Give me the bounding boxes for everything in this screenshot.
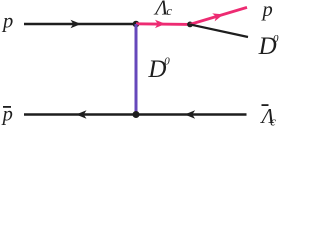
svg-text:c: c: [270, 113, 276, 128]
arrow 1 on antiproton line (left): [76, 110, 87, 118]
wire: D0 exchange propagator (purple vertical): [135, 24, 138, 115]
svg-text:c: c: [166, 3, 172, 18]
arrow on outgoing proton line: [212, 10, 224, 21]
svg-text:0: 0: [164, 56, 170, 68]
wire: Λc propagator (magenta horizontal): [136, 22, 190, 26]
arrow on Λc propagator: [155, 20, 166, 28]
node: vertex 2 (Λc–p–D0 junction): [187, 22, 193, 28]
wire: incoming proton line (top): [24, 23, 136, 26]
wire: antiproton line (bottom): [24, 113, 247, 116]
svg-text:p: p: [261, 0, 273, 21]
label Λ̄c (bottom right): [262, 104, 269, 106]
arrow 2 on antiproton line (left): [185, 110, 196, 118]
node: vertex 1 (p–Λc–D0 junction): [133, 21, 140, 28]
svg-text:p: p: [1, 103, 13, 125]
arrow on proton line (right): [71, 20, 82, 28]
node: vertex 3 (p̄–Λ̄c–D0 junction): [133, 111, 140, 118]
wire: D0 outgoing line (black, down-right): [190, 24, 248, 37]
svg-text:p: p: [1, 11, 13, 33]
label p̄ (bottom left, antiproton): [3, 106, 11, 108]
svg-text:0: 0: [273, 33, 279, 45]
wire: outgoing proton line (magenta, up-right): [190, 7, 247, 24]
